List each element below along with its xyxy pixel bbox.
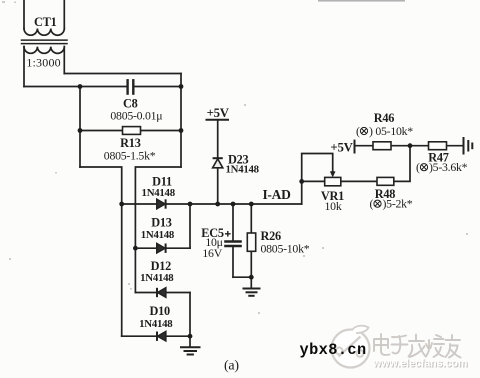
svg-text:(: ( xyxy=(416,160,420,174)
svg-text:)5-3.6k*: )5-3.6k* xyxy=(429,160,468,174)
svg-text:0805-10k*: 0805-10k* xyxy=(261,242,310,256)
svg-text:1:3000: 1:3000 xyxy=(26,55,61,69)
svg-text:0805-1.5k*: 0805-1.5k* xyxy=(104,148,156,162)
svg-text:(a): (a) xyxy=(224,359,239,374)
svg-text:10k: 10k xyxy=(325,199,342,213)
svg-text:ybx8.cn: ybx8.cn xyxy=(300,341,367,359)
svg-text:) 05-10k*: ) 05-10k* xyxy=(369,124,413,138)
svg-text:+5V: +5V xyxy=(207,106,230,120)
svg-text:1N4148: 1N4148 xyxy=(140,272,174,284)
svg-text:1N4148: 1N4148 xyxy=(141,229,175,241)
svg-text:1N4148: 1N4148 xyxy=(226,164,260,176)
svg-text:D10: D10 xyxy=(149,304,170,318)
svg-text:1N4148: 1N4148 xyxy=(142,187,176,199)
svg-text:D13: D13 xyxy=(151,216,172,230)
svg-text:0805-0.01μ: 0805-0.01μ xyxy=(110,108,162,122)
svg-text:(: ( xyxy=(356,124,360,138)
svg-text:CT1: CT1 xyxy=(34,15,57,29)
svg-text:16V: 16V xyxy=(202,246,222,260)
svg-text:+5V: +5V xyxy=(330,140,353,154)
svg-text:www.elecfans.com: www.elecfans.com xyxy=(372,357,467,369)
svg-text:(: ( xyxy=(370,197,374,211)
svg-text:)5-2k*: )5-2k* xyxy=(383,197,413,211)
svg-text:I-AD: I-AD xyxy=(262,187,291,202)
svg-text:1N4148: 1N4148 xyxy=(139,318,173,330)
svg-text:D12: D12 xyxy=(151,259,172,273)
